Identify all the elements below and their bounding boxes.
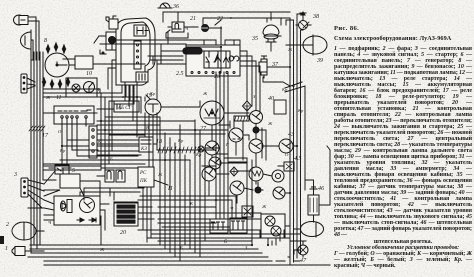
svg-text:КЗ: КЗ (140, 147, 147, 152)
heater switch RS-PK (138, 167, 168, 187)
steering column switch housing 25/26/27 (116, 18, 155, 85)
svg-text:21: 21 (190, 16, 196, 22)
svg-text:О: О (58, 129, 62, 134)
wire colour code letters (45, 15, 304, 252)
pilot lamp dark b (255, 182, 261, 193)
spark plug arrows below distributor (42, 78, 69, 88)
wire sender37 to bus (263, 67, 290, 86)
dome lamp 36 (top) (158, 3, 172, 8)
harness horn-generator to bus (44, 204, 109, 245)
svg-text:г: г (230, 15, 232, 20)
svg-text:3: 3 (13, 172, 17, 178)
svg-text:46: 46 (318, 185, 324, 192)
right vertical wire bus (290, 18, 301, 265)
spark plug arrows above distributor (46, 43, 65, 53)
generator 7 (circle with brushes) (80, 198, 95, 213)
relay box KZ 18b (139, 137, 153, 152)
hatched wire bundle crossing (157, 147, 205, 153)
connector panel 3 (upper) (21, 74, 35, 93)
svg-text:38: 38 (312, 14, 319, 20)
svg-text:Кр: Кр (297, 108, 304, 113)
svg-text:РС: РС (139, 171, 147, 176)
bottom bus risers left (31, 192, 40, 253)
svg-text:Ж: Ж (261, 204, 267, 209)
svg-text:2: 2 (6, 222, 9, 228)
harness regulator to center (44, 89, 141, 101)
harness switch column drop-left (44, 60, 134, 104)
tail lamp 39 (oval) (303, 35, 327, 55)
distributor 8 (45, 53, 69, 77)
harness cluster right verticals (209, 106, 266, 203)
harness left lamp drops (28, 171, 60, 210)
horn 4 and generator 7 enclosure (54, 196, 100, 225)
svg-text:17: 17 (42, 133, 49, 139)
wire lamp1 to bus (28, 17, 36, 60)
horn button contact in switch (134, 25, 148, 36)
footswitch 26 box with two lamps (261, 214, 285, 238)
svg-text:Ч: Ч (48, 220, 52, 225)
left vertical wire bus (31, 52, 43, 192)
svg-text:5: 5 (72, 168, 75, 174)
svg-text:АБ СГ: АБ СГ (117, 106, 132, 111)
oil temp gauge 28 (205, 141, 219, 155)
svg-text:в: в (122, 94, 124, 99)
svg-text:Ж: Ж (45, 95, 51, 100)
heater box pedestal (166, 30, 188, 38)
socket 46a (double circle) (272, 170, 284, 182)
svg-text:К: К (189, 201, 194, 206)
harness right-mid horizontals (44, 150, 247, 166)
headlamp 2 (top left) (21, 30, 32, 51)
svg-text:Ж: Ж (99, 247, 105, 252)
svg-text:40: 40 (268, 95, 274, 102)
wire headlamp2 down (31, 40, 33, 60)
ignition coil 10 (63, 56, 93, 69)
lamp diamond 41 (230, 167, 238, 176)
parking lamp 1 (bottom left) (12, 247, 44, 256)
wire lamp22 up-right (215, 20, 221, 47)
svg-text:Б: Б (179, 245, 183, 250)
bottom horizontal wire bus (28, 245, 330, 265)
oil pressure sender 38 (296, 12, 311, 30)
harness right lower (268, 146, 330, 254)
turn signal flasher block 19 (186, 45, 240, 76)
blocking relay 17b (116, 170, 125, 182)
gauge 29b lower (209, 157, 221, 169)
svg-text:Ж: Ж (157, 172, 163, 177)
voltage regulator 18 (relay-regulator) (54, 106, 94, 124)
instrument resistor (hatched) (234, 116, 249, 121)
svg-text:Ж: Ж (287, 47, 293, 52)
washer jug (106, 16, 118, 29)
svg-text:2.5: 2.5 (176, 71, 184, 77)
harness relay block top feeds (157, 40, 260, 113)
switch contact strip (134, 41, 141, 69)
svg-text:Ж: Ж (267, 121, 273, 126)
ignition switch 24 (key symbol) (94, 32, 126, 54)
fuel gauge 31 (250, 111, 263, 124)
connector panel 6a (210, 219, 228, 233)
connector panel 3 (lower) (21, 178, 44, 208)
wiper switch cluster circle 42 (202, 167, 216, 181)
svg-text:Ч: Ч (96, 87, 100, 92)
svg-text:11: 11 (56, 95, 62, 101)
central light switch 27 (big dial) (200, 101, 224, 125)
scan mark left edge (0, 236, 4, 244)
ballast resistor (dark) (175, 48, 206, 54)
stoplight switch box (242, 206, 253, 217)
harness left risers center (101, 89, 112, 170)
connector panel 6b (230, 218, 247, 233)
harness cluster interconnect (205, 40, 290, 193)
svg-text:В: В (146, 125, 149, 130)
parking lamp 1 (top left) (14, 15, 29, 25)
harness nested loops lower-left (80, 187, 144, 226)
harness top distribution (93, 12, 290, 64)
svg-text:10: 10 (86, 71, 92, 77)
blocking relay 17a (105, 170, 114, 182)
diagonal harness to right bus (285, 82, 305, 190)
svg-text:Кр: Кр (149, 91, 156, 96)
svg-text:Г: Г (225, 142, 229, 147)
underhood lamp 11 and switch 12 bracket (66, 78, 97, 96)
heater spiral 21 (172, 22, 184, 32)
svg-text:35: 35 (251, 36, 258, 42)
trailer socket 46 (308, 187, 319, 215)
switch lower contact box (136, 72, 148, 82)
svg-text:36: 36 (172, 4, 179, 10)
harness starter feeds (62, 140, 100, 196)
rear turn lamp 47 (298, 241, 308, 255)
harness heater loops (138, 196, 300, 238)
relay block drop harness (216, 72, 228, 219)
svg-text:Ч: Ч (230, 206, 234, 211)
wiper motor 40 (249, 167, 263, 181)
svg-text:Кр: Кр (177, 138, 184, 143)
oil temperature sender 37 (259, 56, 267, 78)
thermal fuse 35 (dome) (263, 25, 279, 46)
pilot lamp small 29 (198, 146, 204, 152)
horn 4 (speaker cone) (61, 200, 73, 213)
ammeter 33 (229, 128, 243, 142)
figure caption text column (334, 25, 472, 269)
wiper area rect 42b (274, 100, 286, 114)
harness flasher to cluster (145, 101, 200, 167)
heater unit 20 (striped core) (114, 202, 158, 226)
svg-text:Кр: Кр (281, 87, 288, 92)
harness center horizontals (44, 121, 200, 164)
harness lower center loops (143, 187, 252, 245)
harness mid horizontals band (44, 109, 160, 182)
panel lamp 30 (diamond) (243, 101, 252, 111)
svg-text:47: 47 (300, 257, 307, 264)
svg-text:6: 6 (224, 239, 227, 245)
switch 44 (273, 187, 285, 199)
svg-text:Б: Б (109, 156, 113, 161)
harness bottom risers (216, 121, 256, 245)
harness switch cluster drops (125, 82, 137, 137)
svg-text:Г: Г (103, 124, 107, 129)
wire lamp1 to bus 2 (28, 21, 39, 60)
harness top right feeds (267, 12, 303, 51)
harness bottom right extension (260, 230, 303, 261)
svg-text:Кр: Кр (195, 152, 202, 157)
svg-text:27: 27 (200, 126, 207, 132)
svg-text:1: 1 (5, 246, 8, 252)
heater pilot lamp 22 (184, 25, 222, 32)
bus bundle hatch marks (29, 126, 45, 131)
fuel tank oval (294, 222, 324, 238)
harness upper center verticals (141, 12, 178, 113)
pilot lamp (dark) (253, 127, 265, 133)
switch circle 34 (230, 181, 244, 195)
svg-text:23: 23 (214, 74, 220, 80)
harness lamp22 vertical (186, 40, 240, 58)
relay box AB-SG 14 (114, 101, 139, 112)
oil pressure gauge 32 (249, 139, 263, 153)
rectifier diodes below generator (77, 218, 96, 222)
svg-text:ПК: ПК (139, 179, 148, 184)
regulator terminal wires down (62, 118, 86, 156)
wires from regulator terminals bending right (62, 140, 98, 156)
starter 5 (60, 168, 88, 188)
right bus top bends (281, 14, 303, 30)
mid vertical harness (160, 120, 205, 261)
starter relay 13 (49, 165, 69, 174)
svg-text:Кр: Кр (59, 148, 66, 153)
headlamp 2 (bottom left) (12, 222, 44, 240)
fuel level sender 43 (279, 139, 293, 153)
turn flasher circle 19b (145, 95, 161, 115)
svg-text:39: 39 (316, 58, 323, 64)
svg-text:Ж: Ж (202, 91, 208, 96)
svg-text:20: 20 (120, 230, 126, 236)
svg-text:8: 8 (44, 38, 47, 44)
fuse block 16 (89, 126, 227, 158)
stop switch 45 (278, 162, 294, 171)
